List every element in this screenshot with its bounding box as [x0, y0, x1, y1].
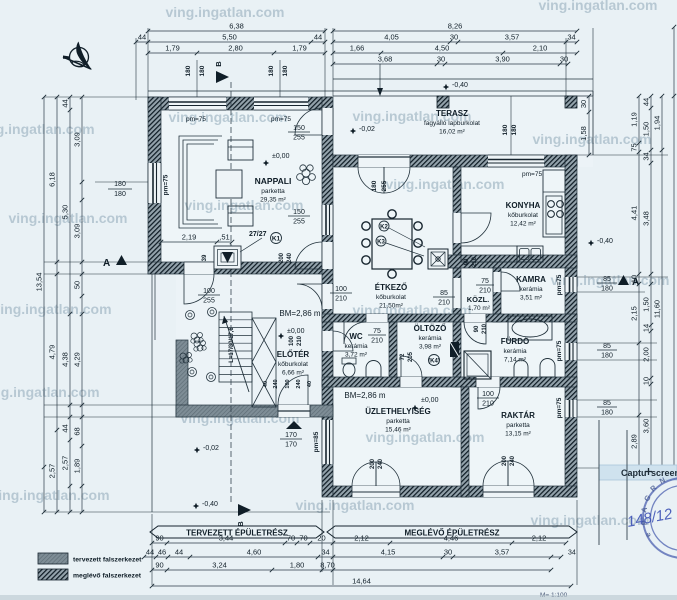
svg-text:13,15 m²: 13,15 m² [505, 431, 531, 438]
kitchen sink [517, 246, 543, 262]
svg-text:12,42 m²: 12,42 m² [510, 221, 536, 228]
svg-text:ving.ingatlan.com: ving.ingatlan.com [0, 384, 100, 400]
svg-text:2,10: 2,10 [533, 44, 548, 53]
svg-text:44: 44 [314, 33, 322, 42]
svg-text:75: 75 [373, 328, 381, 335]
svg-text:44: 44 [61, 99, 70, 107]
svg-text:-0,40: -0,40 [202, 501, 218, 508]
svg-text:1,50: 1,50 [642, 297, 651, 312]
window spine 150-255 [322, 205, 333, 235]
door arc kozl-kamra [501, 272, 520, 291]
svg-text:3,51 m²: 3,51 m² [520, 295, 543, 302]
wall wc-oltozo [389, 322, 397, 387]
svg-text:30: 30 [437, 55, 445, 64]
svg-text:pm=75: pm=75 [186, 116, 206, 123]
floor fill eloter [176, 274, 333, 417]
level terasz [350, 128, 356, 134]
svg-text:A: A [632, 277, 639, 288]
dim row top 3b [333, 52, 577, 54]
svg-text:1,80: 1,80 [290, 561, 305, 570]
opening oltozo door [400, 377, 422, 387]
svg-text:170: 170 [285, 442, 297, 449]
svg-text:5,50: 5,50 [222, 33, 237, 42]
svg-text:TERVEZETT ÉPÜLETRÉSZ: TERVEZETT ÉPÜLETRÉSZ [186, 529, 288, 538]
door arc uzlet double 1 [352, 462, 376, 486]
svg-text:3,90: 3,90 [495, 55, 510, 64]
capture screen band [599, 465, 677, 480]
opening raktar corridor door [476, 377, 500, 387]
svg-text:Captu: Captu [621, 468, 647, 478]
svg-text:4,15: 4,15 [381, 548, 396, 557]
svg-text:4,79: 4,79 [48, 345, 57, 360]
svg-text:ÉTKEZŐ: ÉTKEZŐ [375, 283, 407, 292]
level uzlet [412, 405, 418, 411]
svg-text:27/27: 27/27 [249, 231, 267, 238]
terrace pillar right [565, 96, 577, 108]
svg-text:KONYHA: KONYHA [506, 201, 541, 210]
svg-text:5,30: 5,30 [61, 205, 70, 220]
opening spine terasz door [322, 108, 333, 135]
dim col right 4 [661, 96, 663, 468]
ext lines top [147, 28, 149, 97]
svg-text:44: 44 [61, 424, 70, 432]
svg-text:3,57: 3,57 [495, 548, 510, 557]
window nappali left [148, 163, 161, 203]
opening spine K1 door [322, 242, 333, 269]
entrance arrow [286, 421, 302, 429]
svg-text:75: 75 [630, 143, 639, 151]
svg-text:kőburkolat: kőburkolat [278, 361, 308, 368]
svg-text:30: 30 [579, 100, 588, 108]
dim col right 1 [588, 96, 590, 155]
wall spine vertical [322, 97, 333, 497]
door arc nappali-terasz [295, 108, 322, 135]
K2 marker [379, 221, 389, 231]
door arc wc [344, 322, 366, 344]
svg-text:210: 210 [371, 338, 383, 345]
opening wc door [366, 314, 388, 322]
ext line right low 2 [626, 430, 628, 540]
dim col left 2 [56, 97, 58, 512]
svg-text:180: 180 [371, 180, 378, 191]
bathtub [508, 316, 552, 340]
dim row top 4 [333, 63, 568, 65]
opening spine wc door [322, 331, 333, 351]
wall nappali left [148, 97, 161, 274]
dim row top 3 [148, 52, 325, 54]
svg-text:68: 68 [73, 427, 82, 435]
door arc raktar double 2 [508, 461, 534, 486]
svg-text:kerámia: kerámia [519, 286, 543, 293]
svg-text:46: 46 [158, 548, 166, 557]
svg-text:meglévő falszerkezet: meglévő falszerkezet [73, 573, 142, 580]
svg-text:RAKTÁR: RAKTÁR [501, 411, 535, 420]
svg-text:150: 150 [293, 125, 305, 132]
svg-text:240: 240 [510, 455, 516, 466]
svg-text:30: 30 [560, 55, 568, 64]
garden furniture [186, 311, 195, 320]
terrace outline [333, 95, 593, 97]
svg-text:75: 75 [481, 278, 489, 285]
level patio [194, 447, 200, 453]
armchair 1 [228, 140, 253, 160]
wc sink [366, 361, 381, 377]
svg-text:kerámia: kerámia [418, 335, 442, 342]
door arc oltozo [401, 356, 422, 377]
svg-text:200: 200 [370, 458, 376, 469]
dim row top 1 [148, 30, 325, 32]
svg-text:210: 210 [482, 323, 488, 334]
wall konyha bottom [448, 255, 577, 268]
door arc eloter-wc [333, 331, 353, 351]
svg-text:ving.ingatlan.com: ving.ingatlan.com [295, 497, 414, 513]
wall main bottom [333, 486, 577, 497]
svg-text:10: 10 [642, 377, 651, 385]
svg-text:100: 100 [289, 335, 295, 346]
floor fill terasz [333, 91, 593, 167]
svg-text:210: 210 [297, 335, 303, 346]
svg-text:100: 100 [482, 391, 494, 398]
patio edge [151, 274, 153, 512]
svg-text:pm=75: pm=75 [556, 340, 563, 361]
section line B [230, 82, 232, 503]
svg-text:pm=75: pm=75 [556, 274, 563, 295]
kitchen counter [543, 170, 565, 237]
svg-text:±0,00: ±0,00 [287, 328, 305, 335]
svg-text:240: 240 [273, 379, 279, 388]
svg-text:ving.ingatlan.com: ving.ingatlan.com [0, 487, 110, 503]
svg-text:44: 44 [146, 548, 154, 557]
fireplace [214, 246, 241, 269]
svg-text:85: 85 [440, 290, 448, 297]
door arc kozl-furdo [464, 322, 486, 344]
svg-text:2,15: 2,15 [630, 306, 639, 321]
plant nappali [297, 165, 316, 185]
level -0,40 right [588, 240, 594, 246]
svg-text:90: 90 [474, 325, 480, 332]
window nappali top 1 [169, 97, 226, 110]
door arc etkezo-eloter [297, 284, 322, 309]
svg-text:240: 240 [378, 458, 384, 469]
svg-text:180: 180 [511, 124, 518, 135]
svg-text:14: 14 [642, 324, 651, 332]
svg-text:4,38: 4,38 [61, 352, 70, 367]
svg-text:1,19: 1,19 [630, 112, 639, 127]
section marker A right [618, 275, 629, 285]
svg-text:K2: K2 [380, 225, 388, 231]
svg-text:pm=85: pm=85 [313, 431, 320, 452]
svg-text:3,98 m²: 3,98 m² [419, 344, 442, 351]
legend tervezett falszerkezet [38, 553, 68, 564]
opening kamra door [493, 272, 501, 292]
svg-text:100: 100 [285, 379, 291, 388]
svg-text:16,02 m²: 16,02 m² [439, 129, 465, 136]
ext lines bottom [151, 514, 153, 585]
svg-text:KAMRA: KAMRA [516, 275, 546, 284]
svg-text:210: 210 [335, 296, 347, 303]
wall uzlet-raktar [461, 387, 469, 497]
svg-text:NAPPALI: NAPPALI [255, 176, 292, 186]
svg-text:,51: ,51 [219, 233, 229, 242]
svg-text:ving.ingatlan.com: ving.ingatlan.com [165, 4, 284, 20]
svg-text:255: 255 [293, 135, 305, 142]
wall eloter left grey [176, 340, 188, 417]
svg-text:44: 44 [138, 33, 146, 42]
svg-text:40: 40 [263, 381, 269, 387]
dim col left 4 [81, 97, 83, 512]
svg-text:180: 180 [502, 124, 509, 135]
wall main right [565, 155, 577, 497]
svg-text:-0,40: -0,40 [452, 82, 468, 89]
shower [464, 351, 491, 379]
svg-text:FÜRDŐ: FÜRDŐ [501, 337, 529, 346]
terrace pillar left [437, 96, 449, 108]
door arc konyha [461, 213, 491, 243]
photo edge bottom [0, 595, 677, 600]
svg-text:200: 200 [279, 252, 285, 263]
svg-text:parketta: parketta [386, 418, 410, 425]
boiler [428, 249, 448, 269]
level patio2 [193, 503, 199, 509]
svg-text:L=17/30/17,6: L=17/30/17,6 [229, 327, 235, 363]
svg-text:-0,02: -0,02 [359, 126, 375, 133]
svg-text:34: 34 [567, 33, 575, 42]
svg-text:39: 39 [202, 254, 208, 261]
svg-text:50: 50 [73, 281, 82, 289]
wall main top [333, 155, 577, 167]
door arc uzlet double 2 [376, 462, 400, 486]
svg-text:4,29: 4,29 [73, 352, 82, 367]
opening uzlet double door [352, 486, 400, 497]
svg-text:150: 150 [293, 209, 305, 216]
svg-text:170: 170 [285, 432, 297, 439]
svg-text:34: 34 [321, 548, 329, 557]
svg-text:2,80: 2,80 [228, 44, 243, 53]
svg-text:3,24: 3,24 [212, 561, 227, 570]
svg-text:1,94: 1,94 [653, 116, 662, 131]
window furdo right [565, 343, 577, 360]
svg-text:A: A [103, 258, 110, 269]
svg-text:20: 20 [317, 534, 325, 543]
dim row bottom 2 [144, 556, 561, 558]
svg-text:ÖLTÖZŐ: ÖLTÖZŐ [414, 324, 447, 333]
wall kozl vertical [453, 268, 461, 387]
svg-text:6,66 m²: 6,66 m² [282, 370, 305, 377]
svg-text:2,89: 2,89 [630, 434, 639, 449]
dim row bottom 1 [152, 542, 566, 544]
dim col right 3 [650, 96, 652, 468]
svg-text:2,57: 2,57 [48, 464, 57, 479]
window konyha top [488, 155, 544, 167]
ext line right low 1 [598, 420, 600, 545]
level nappali [263, 160, 269, 166]
svg-text:44: 44 [642, 98, 651, 106]
wall nappali top [148, 97, 332, 110]
dim row top 2 [136, 41, 325, 43]
door arc terasz french 1 [358, 167, 384, 193]
svg-text:100: 100 [335, 286, 347, 293]
svg-text:34: 34 [568, 550, 576, 557]
svg-text:40: 40 [307, 381, 313, 387]
furdo sink 1 [514, 360, 528, 377]
svg-text:2,57: 2,57 [61, 456, 70, 471]
svg-text:ÜZLETHELYISÉG: ÜZLETHELYISÉG [365, 407, 431, 416]
svg-text:3,72 m²: 3,72 m² [345, 352, 368, 359]
wall nappali bottom [148, 262, 332, 274]
svg-text:parketta: parketta [506, 422, 530, 429]
svg-text:3,09: 3,09 [73, 224, 82, 239]
svg-text:BM=2,86 m: BM=2,86 m [344, 391, 385, 400]
svg-text:180: 180 [268, 65, 275, 76]
svg-text:4,50: 4,50 [435, 44, 450, 53]
svg-text:K3: K3 [377, 240, 385, 246]
svg-text:72: 72 [400, 353, 406, 360]
svg-text:3,60: 3,60 [642, 419, 651, 434]
svg-text:parketta: parketta [261, 188, 285, 195]
svg-text:180: 180 [199, 65, 206, 76]
banner tervezett epuletresz [150, 526, 324, 538]
dim col right 5 [673, 27, 675, 468]
svg-text:1,79: 1,79 [165, 44, 180, 53]
door arc nappali-eloter [184, 274, 214, 304]
svg-text:1,79: 1,79 [292, 44, 307, 53]
svg-text:MEGLÉVŐ ÉPÜLETRÉSZ: MEGLÉVŐ ÉPÜLETRÉSZ [404, 529, 499, 538]
svg-text:B: B [236, 521, 245, 527]
svg-text:6,38: 6,38 [229, 22, 244, 31]
stamp [643, 478, 677, 558]
svg-text:kerámia: kerámia [344, 343, 368, 350]
svg-text:205: 205 [408, 351, 414, 362]
svg-text:ELŐTÉR: ELŐTÉR [277, 350, 310, 359]
svg-text:3,57: 3,57 [505, 33, 520, 42]
wall eloter bottom grey [176, 405, 333, 417]
svg-text:1,66: 1,66 [350, 44, 365, 53]
svg-text:4,05: 4,05 [384, 33, 399, 42]
svg-text:255: 255 [381, 180, 388, 191]
K1 marker [271, 233, 282, 244]
window nappali top 2 [254, 97, 308, 110]
floor fill main [322, 155, 577, 497]
svg-text:30: 30 [450, 33, 458, 42]
opening raktar double door [483, 486, 534, 497]
dining table [372, 219, 412, 269]
svg-text:pm=75: pm=75 [163, 174, 170, 195]
cross brace panel [252, 318, 276, 407]
svg-text:180: 180 [185, 65, 192, 76]
door arc nappali K1 [295, 242, 322, 269]
svg-text:kőburkolat: kőburkolat [376, 294, 406, 301]
svg-text:6,18: 6,18 [48, 172, 57, 187]
section marker B bottom [238, 504, 251, 516]
opening konyha door [453, 213, 461, 243]
oltozo dark block [450, 342, 459, 357]
wall uzlet row top [322, 377, 577, 387]
dim row bottom 3 [152, 569, 551, 571]
svg-text:240: 240 [296, 379, 302, 388]
window kamra right [565, 277, 577, 292]
roof edge line [148, 90, 593, 92]
legend meglevo falszerkezet [38, 569, 68, 580]
svg-text:180: 180 [282, 65, 289, 76]
svg-text:90: 90 [155, 561, 163, 570]
level -0,40 top [443, 84, 449, 90]
wall wc row top [322, 314, 577, 322]
dim row bottom 4 [152, 585, 571, 587]
stairs [219, 312, 252, 382]
svg-text:85: 85 [603, 400, 611, 407]
dim col left 1 [43, 97, 45, 512]
svg-text:100: 100 [203, 288, 215, 295]
K4 marker [429, 355, 440, 366]
furdo sink 2 [540, 359, 555, 377]
svg-text:tervezett falszerkezet: tervezett falszerkezet [73, 557, 142, 564]
svg-text:pm=75: pm=75 [556, 397, 563, 418]
svg-text:14,64: 14,64 [352, 577, 371, 586]
svg-text:pm=75: pm=75 [522, 171, 542, 178]
svg-text:-0,02: -0,02 [203, 445, 219, 452]
svg-text:240: 240 [287, 252, 293, 263]
svg-text:3,48: 3,48 [642, 211, 651, 226]
svg-text:34: 34 [642, 152, 651, 160]
svg-text:180: 180 [114, 191, 126, 198]
dim row top 1b [333, 30, 577, 32]
armchair 2 [228, 206, 253, 226]
opening furdo door [464, 314, 486, 322]
svg-text:255: 255 [293, 219, 305, 226]
opening nappali bottom door [184, 262, 214, 274]
svg-text:2,00: 2,00 [642, 347, 651, 362]
svg-text:BM=2,86 m: BM=2,86 m [279, 309, 320, 318]
section marker B top [216, 71, 229, 83]
ext lines left [44, 96, 148, 98]
svg-text:180: 180 [601, 353, 613, 360]
dim row top 2b [333, 41, 577, 43]
fireplace dim [161, 241, 232, 243]
svg-text:4,60: 4,60 [247, 548, 262, 557]
svg-text:255: 255 [203, 298, 215, 305]
kitchen counter bottom [461, 246, 517, 262]
north arrow [63, 42, 92, 71]
svg-text:1,89: 1,89 [73, 459, 82, 474]
svg-text:pm=75: pm=75 [271, 116, 291, 123]
window raktar right [565, 400, 577, 417]
door arc raktar corridor [478, 387, 500, 409]
svg-text:180: 180 [601, 410, 613, 417]
svg-text:kerámia: kerámia [503, 348, 527, 355]
svg-text:ving.ingatlan.com: ving.ingatlan.com [0, 301, 112, 317]
datum line terrace [333, 78, 593, 80]
svg-text:1,58: 1,58 [579, 126, 588, 141]
door arc raktar double 1 [483, 461, 508, 486]
svg-text:screen: screen [651, 468, 677, 478]
dim col right 2 [638, 96, 640, 468]
banner meglevo epuletresz [327, 526, 577, 538]
opening kozl door [453, 278, 461, 308]
svg-text:200: 200 [502, 455, 508, 466]
opening spine etkezo-eloter door [322, 284, 333, 309]
opening eloter entrance [278, 405, 310, 417]
svg-text:3,68: 3,68 [378, 55, 393, 64]
svg-text:TERASZ: TERASZ [436, 109, 468, 118]
svg-text:4,41: 4,41 [630, 206, 639, 221]
floor fill nappali [148, 97, 333, 274]
svg-text:-0,40: -0,40 [597, 238, 613, 245]
svg-text:B: B [214, 61, 223, 67]
ext lines right [577, 154, 668, 156]
dim col left 3 [69, 97, 71, 512]
svg-text:85: 85 [603, 276, 611, 283]
svg-text:2,19: 2,19 [182, 233, 197, 242]
